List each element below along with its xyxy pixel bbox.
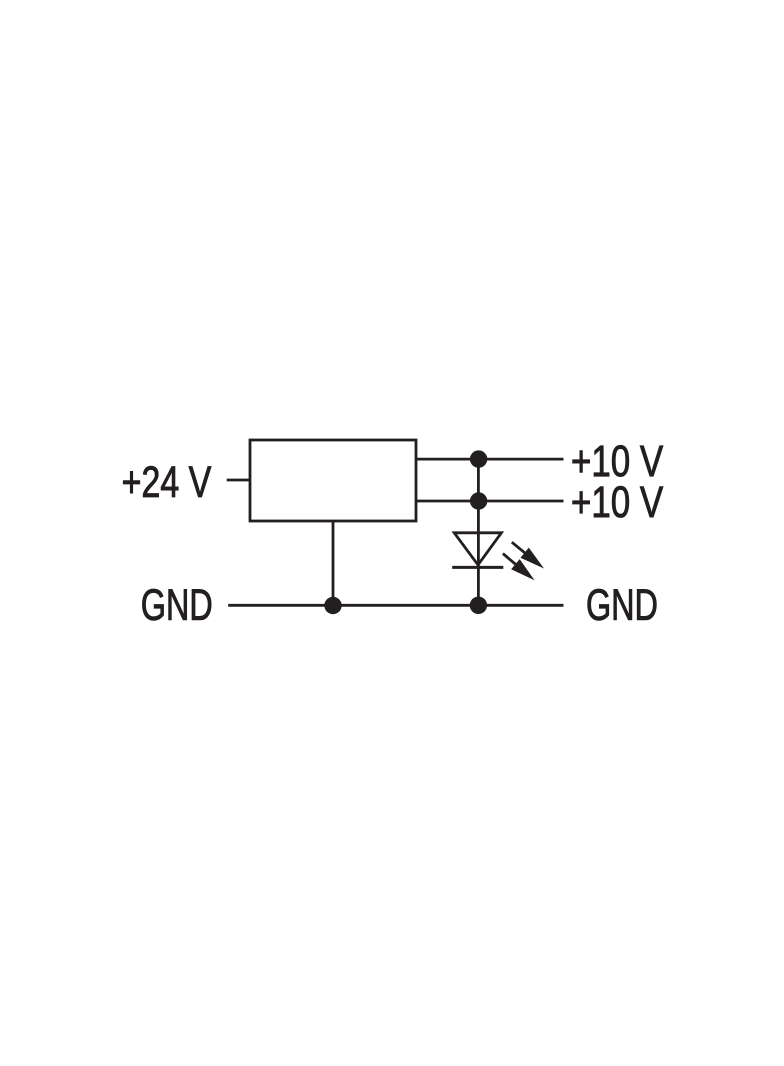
node junction GND LED <box>470 597 487 614</box>
net label GND right <box>588 589 657 620</box>
wire vertical through LED branch <box>477 459 480 605</box>
wire block output 1 <box>416 458 564 461</box>
wire +24V stub to block <box>227 479 250 482</box>
net label GND left <box>142 589 211 620</box>
power supply block U1 <box>250 440 416 521</box>
node junction GND block <box>324 597 341 614</box>
net label +10 V (upper) <box>573 445 663 476</box>
net label +24 V <box>123 466 211 497</box>
LED D1 emission arrow upper <box>512 542 544 568</box>
LED D1 cathode bar <box>452 566 503 569</box>
node junction output2 <box>470 492 487 509</box>
wire block bottom to GND <box>332 521 335 605</box>
LED D1 emission arrow lower <box>503 554 535 581</box>
wire block output 2 <box>416 500 564 503</box>
LED D1 triangle <box>454 533 501 565</box>
net label +10 V (lower) <box>573 486 663 517</box>
node junction output1 <box>470 450 487 467</box>
wire GND rail <box>228 604 563 607</box>
